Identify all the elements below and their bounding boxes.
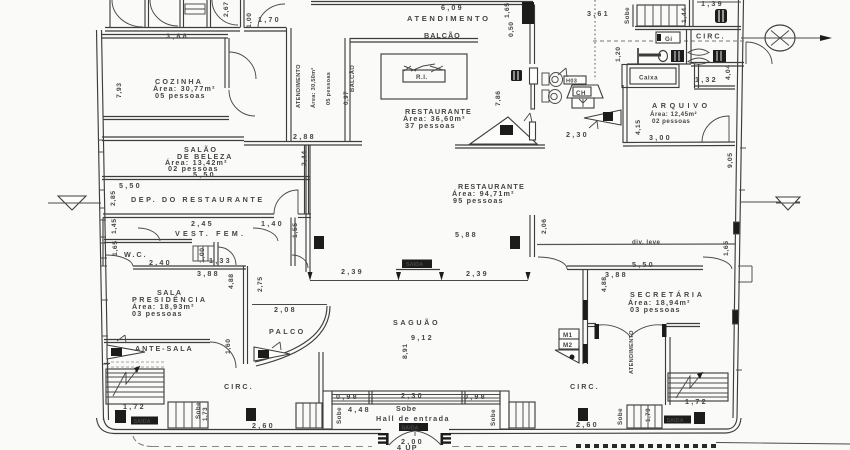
svg-text:05 pessoas: 05 pessoas [326, 72, 332, 105]
svg-text:1,79: 1,79 [645, 408, 652, 422]
svg-text:0,50: 0,50 [508, 21, 515, 37]
svg-text:1,33: 1,33 [209, 256, 232, 265]
svg-text:BALCÃO: BALCÃO [424, 31, 461, 40]
svg-text:0,98: 0,98 [464, 392, 487, 401]
svg-text:3,00: 3,00 [649, 133, 672, 142]
svg-text:4,88: 4,88 [601, 276, 608, 292]
svg-text:1,72: 1,72 [685, 397, 708, 406]
svg-text:4,15: 4,15 [635, 119, 642, 135]
svg-text:Caixa: Caixa [639, 75, 658, 82]
svg-text:ATENDIMENTO: ATENDIMENTO [296, 64, 302, 108]
svg-text:8,91: 8,91 [402, 343, 409, 359]
svg-text:2,85: 2,85 [110, 190, 117, 206]
svg-text:4 UP: 4 UP [397, 443, 418, 450]
svg-text:1,72: 1,72 [123, 402, 146, 411]
svg-text:4,04: 4,04 [725, 64, 732, 80]
svg-text:ARQUIVO: ARQUIVO [652, 101, 711, 110]
svg-text:5,50: 5,50 [119, 181, 142, 190]
svg-text:PALCO: PALCO [269, 327, 306, 336]
svg-text:2,67: 2,67 [223, 1, 230, 17]
svg-text:2,06: 2,06 [541, 218, 548, 234]
svg-text:9,05: 9,05 [727, 152, 734, 168]
svg-text:CIRC.: CIRC. [696, 32, 726, 41]
svg-text:4,48: 4,48 [348, 405, 371, 414]
svg-text:2,30: 2,30 [401, 391, 424, 400]
svg-text:M2: M2 [563, 342, 573, 349]
svg-text:ANTE-SALA: ANTE-SALA [135, 344, 194, 353]
svg-text:Área: 30,50m²: Área: 30,50m² [310, 67, 317, 108]
svg-text:1,00: 1,00 [199, 247, 206, 263]
svg-text:2,39: 2,39 [341, 267, 364, 276]
svg-text:1,32: 1,32 [695, 75, 718, 84]
svg-text:ATENDIMENTO: ATENDIMENTO [629, 330, 635, 374]
svg-text:R.I.: R.I. [416, 74, 428, 81]
svg-text:SAIDA: SAIDA [667, 418, 684, 424]
svg-text:2,75: 2,75 [257, 276, 264, 292]
svg-text:2,30: 2,30 [566, 130, 589, 139]
svg-text:1,73: 1,73 [202, 407, 209, 421]
svg-text:5,50: 5,50 [193, 170, 216, 179]
svg-text:Sobe: Sobe [617, 408, 624, 425]
svg-text:1,65: 1,65 [112, 240, 119, 256]
svg-text:2,60: 2,60 [576, 420, 599, 429]
svg-text:Gi: Gi [665, 36, 673, 43]
svg-text:BALCÃO: BALCÃO [349, 65, 356, 92]
svg-text:3,61: 3,61 [587, 9, 610, 18]
svg-text:5,50: 5,50 [632, 260, 655, 269]
svg-text:02 pessoas: 02 pessoas [652, 118, 690, 125]
svg-text:W.C.: W.C. [124, 250, 148, 259]
svg-text:03 pessoas: 03 pessoas [132, 309, 183, 318]
svg-text:2,44: 2,44 [301, 150, 308, 166]
svg-text:Hall de entrada: Hall de entrada [376, 414, 450, 423]
svg-text:6,09: 6,09 [441, 3, 464, 12]
svg-text:Área: 12,45m²: Área: 12,45m² [650, 111, 697, 118]
svg-text:3,88: 3,88 [605, 270, 628, 279]
svg-text:9,12: 9,12 [411, 333, 434, 342]
svg-text:Sobe: Sobe [396, 404, 417, 413]
svg-text:1,70: 1,70 [258, 15, 281, 24]
svg-text:1,20: 1,20 [615, 46, 622, 62]
svg-text:2,08: 2,08 [274, 305, 297, 314]
svg-text:37 pessoas: 37 pessoas [405, 121, 456, 130]
svg-text:1,39: 1,39 [701, 0, 724, 8]
svg-text:H03: H03 [566, 79, 577, 85]
svg-text:1,65: 1,65 [504, 2, 511, 18]
svg-text:7,86: 7,86 [495, 90, 502, 106]
svg-text:CIRC.: CIRC. [570, 382, 600, 391]
svg-text:7,93: 7,93 [116, 82, 123, 98]
svg-text:Sobe: Sobe [624, 7, 631, 24]
svg-text:CH: CH [576, 90, 586, 97]
svg-text:SAIDA: SAIDA [406, 262, 423, 268]
svg-text:4,88: 4,88 [228, 273, 235, 289]
svg-text:Sobe: Sobe [336, 407, 343, 424]
svg-text:2,88: 2,88 [293, 132, 316, 141]
svg-text:1,44: 1,44 [681, 7, 688, 23]
svg-text:1,40: 1,40 [261, 219, 284, 228]
svg-text:3,88: 3,88 [197, 269, 220, 278]
svg-text:0,98: 0,98 [336, 392, 359, 401]
svg-text:VEST. FEM.: VEST. FEM. [175, 229, 246, 238]
svg-text:SAGUÃO: SAGUÃO [393, 318, 440, 327]
svg-text:3,88: 3,88 [166, 32, 189, 41]
svg-text:2,45: 2,45 [191, 219, 214, 228]
svg-text:1,55: 1,55 [292, 222, 299, 238]
svg-text:SAIDA: SAIDA [134, 419, 151, 425]
svg-text:5,88: 5,88 [455, 230, 478, 239]
svg-text:Sobe: Sobe [490, 409, 497, 426]
svg-text:0,97: 0,97 [343, 91, 350, 105]
svg-text:1,45: 1,45 [111, 218, 118, 234]
svg-text:2,60: 2,60 [252, 421, 275, 430]
svg-text:05 pessoas: 05 pessoas [155, 91, 206, 100]
svg-text:95 pessoas: 95 pessoas [453, 196, 504, 205]
svg-text:Sobe: Sobe [195, 402, 202, 419]
svg-text:CIRC.: CIRC. [224, 382, 254, 391]
svg-text:03 pessoas: 03 pessoas [630, 305, 681, 314]
svg-text:1,60: 1,60 [225, 338, 232, 354]
svg-text:2,39: 2,39 [466, 269, 489, 278]
svg-text:ATENDIMENTO: ATENDIMENTO [407, 14, 491, 23]
svg-text:div. leve: div. leve [632, 239, 661, 246]
svg-text:DEP. DO RESTAURANTE: DEP. DO RESTAURANTE [131, 195, 265, 204]
svg-text:1,00: 1,00 [246, 12, 253, 28]
svg-text:1,65: 1,65 [723, 240, 730, 256]
svg-text:2,40: 2,40 [149, 258, 172, 267]
svg-text:M1: M1 [563, 332, 573, 339]
